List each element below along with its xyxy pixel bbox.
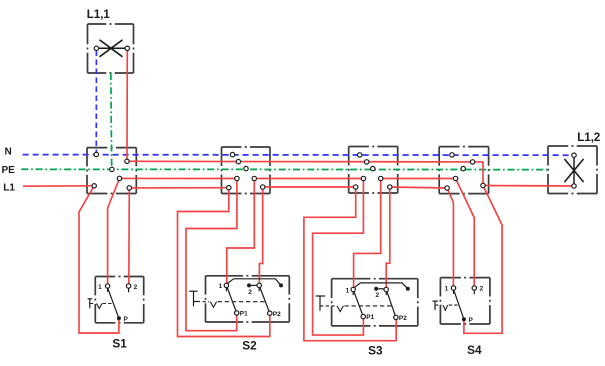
svg-text:1: 1 xyxy=(219,283,223,290)
svg-text:1: 1 xyxy=(346,287,350,294)
svg-text:2: 2 xyxy=(376,292,380,299)
svg-text:1: 1 xyxy=(445,286,449,293)
svg-text:P2: P2 xyxy=(399,315,407,322)
svg-text:2: 2 xyxy=(480,286,484,293)
svg-text:N: N xyxy=(5,147,12,158)
svg-text:S4: S4 xyxy=(467,343,482,357)
svg-text:P2: P2 xyxy=(273,311,281,318)
svg-text:S3: S3 xyxy=(368,343,383,357)
svg-text:PE: PE xyxy=(2,165,16,176)
svg-text:L1,1: L1,1 xyxy=(87,9,111,21)
svg-text:2: 2 xyxy=(248,289,252,296)
svg-text:2: 2 xyxy=(134,284,138,291)
svg-text:P: P xyxy=(124,316,129,323)
svg-text:P1: P1 xyxy=(366,314,374,321)
svg-text:L1: L1 xyxy=(3,183,15,194)
svg-text:S1: S1 xyxy=(112,336,127,350)
svg-text:1: 1 xyxy=(98,284,102,291)
svg-text:L1,2: L1,2 xyxy=(577,132,600,144)
svg-text:S2: S2 xyxy=(242,339,257,353)
svg-text:P: P xyxy=(469,317,474,324)
svg-text:P1: P1 xyxy=(240,311,248,318)
